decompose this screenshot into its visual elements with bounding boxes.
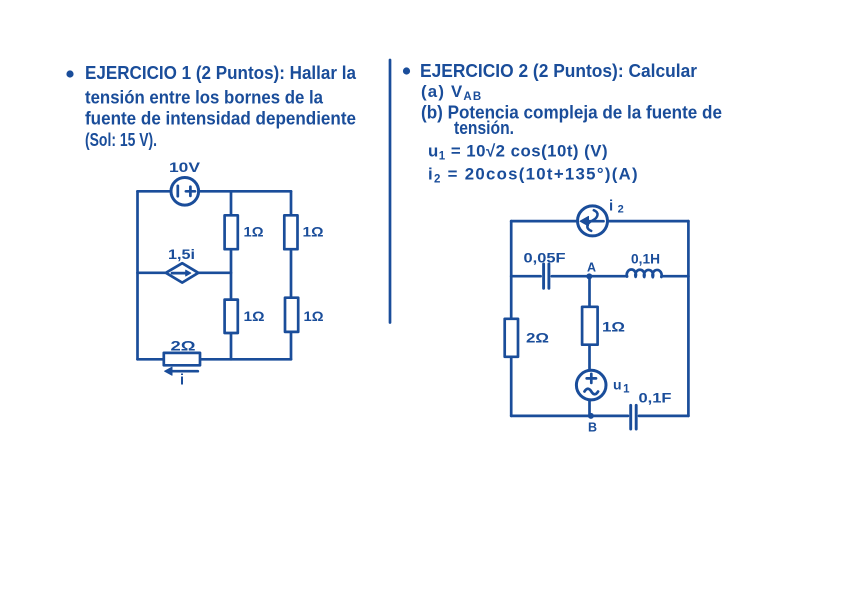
- node B: [588, 413, 594, 419]
- svg-text:1,5i: 1,5i: [168, 247, 195, 262]
- svg-text:2Ω: 2Ω: [171, 338, 196, 354]
- current arrow i (circuit 1): [165, 367, 198, 375]
- svg-text:u1: u1: [613, 377, 630, 396]
- svg-text:u1 = 10√2 cos(10t) (V): u1 = 10√2 cos(10t) (V): [428, 142, 608, 163]
- wire: right rail (circuit 2): [687, 221, 690, 416]
- inductor 0,1H: [627, 270, 662, 278]
- svg-text:(Sol: 15 V).: (Sol: 15 V).: [85, 130, 157, 150]
- wire: middle row left of capacitor: [511, 275, 540, 278]
- resistor 2Ω (circuit 1, bottom): [164, 353, 200, 365]
- svg-text:i2: i2: [609, 198, 626, 216]
- dependent current source 1,5i (diamond): [166, 263, 198, 282]
- svg-text:1Ω: 1Ω: [303, 224, 324, 240]
- svg-text:EJERCICIO 2 (2 Puntos): Calcul: EJERCICIO 2 (2 Puntos): Calcular: [420, 61, 697, 81]
- voltage source u1: [576, 370, 606, 400]
- svg-text:1Ω: 1Ω: [304, 308, 324, 324]
- svg-text:0,1H: 0,1H: [631, 252, 660, 267]
- wire: middle row capacitor to inductor: [552, 275, 627, 278]
- divider line: [389, 60, 392, 323]
- svg-text:A: A: [587, 261, 596, 275]
- node A: [586, 273, 592, 279]
- resistor 1Ω (right top, circuit 1): [284, 215, 297, 249]
- svg-text:i: i: [180, 373, 184, 389]
- resistor 1Ω (right bottom, circuit 1): [285, 298, 298, 332]
- wire: top rail (circuit 2): [511, 220, 688, 223]
- resistor 2Ω (circuit 2): [505, 319, 518, 357]
- svg-text:1Ω: 1Ω: [244, 224, 264, 240]
- voltage source V1 10V: [171, 178, 199, 206]
- wire: left rail (circuit 2): [510, 221, 513, 416]
- wire: center branch A to B (circuit 2): [588, 276, 591, 416]
- svg-text:EJERCICIO 1 (2 Puntos): Hallar: EJERCICIO 1 (2 Puntos): Hallar la: [85, 63, 357, 83]
- resistor 1Ω (middle bottom, circuit 1): [225, 300, 238, 333]
- svg-text:0,05F: 0,05F: [524, 251, 566, 266]
- svg-text:B: B: [588, 421, 597, 435]
- svg-text:fuente de intensidad dependien: fuente de intensidad dependiente: [85, 109, 356, 129]
- svg-text:0,1F: 0,1F: [639, 391, 672, 406]
- current source i2: [578, 206, 608, 236]
- svg-text:1Ω: 1Ω: [244, 308, 265, 324]
- svg-text:(a) VAB: (a) VAB: [421, 82, 482, 103]
- wire: right branch (circuit 1): [290, 191, 293, 359]
- svg-text:tensión entre los bornes de la: tensión entre los bornes de la: [85, 88, 324, 108]
- bullet (exercise 1): [66, 70, 73, 77]
- wire: middle row right of inductor: [662, 275, 689, 278]
- wire: dependent source row (circuit 1): [138, 271, 232, 274]
- wire: left rail (circuit 1): [136, 191, 139, 359]
- svg-text:i2 = 20cos(10t+135°)(A): i2 = 20cos(10t+135°)(A): [428, 165, 639, 186]
- svg-text:tensión.: tensión.: [454, 118, 514, 138]
- capacitor 0,1F: [631, 405, 637, 429]
- resistor 1Ω (circuit 2): [582, 307, 598, 345]
- wire: bottom rail right of capacitor: [639, 415, 688, 418]
- bullet (exercise 2): [403, 67, 410, 74]
- capacitor 0,05F: [544, 264, 549, 288]
- wire: bottom rail (circuit 1): [138, 358, 292, 361]
- svg-text:10V: 10V: [169, 160, 200, 175]
- wire: top rail (circuit 1): [138, 190, 292, 193]
- svg-text:2Ω: 2Ω: [526, 330, 549, 346]
- wire: middle branch (circuit 1): [230, 191, 233, 359]
- wire: bottom rail left of capacitor: [511, 415, 628, 418]
- resistor 1Ω (middle top, circuit 1): [225, 215, 238, 249]
- svg-text:1Ω: 1Ω: [602, 319, 625, 335]
